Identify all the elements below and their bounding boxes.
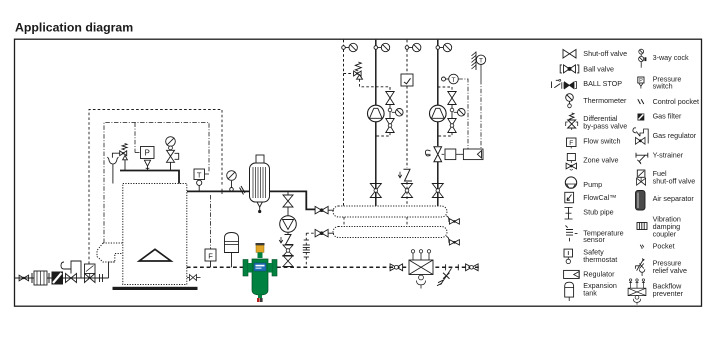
boiler top manifold — [120, 171, 179, 184]
control pocket on supply — [240, 186, 246, 195]
svg-text:relief valve: relief valve — [653, 266, 687, 275]
legend: vibration damping coupler — [637, 215, 681, 239]
inner dash-dot box — [104, 123, 209, 244]
svg-text:T: T — [479, 58, 483, 65]
riser 2 shutoff — [370, 184, 381, 198]
dirt separator drain — [258, 295, 262, 298]
burner blower — [97, 243, 123, 262]
svg-text:Stub pipe: Stub pipe — [583, 208, 613, 217]
return pipe dashed — [187, 266, 480, 268]
header right drains — [446, 216, 449, 222]
svg-text:thermostat: thermostat — [583, 255, 617, 264]
manifold isolation valve — [167, 150, 175, 162]
svg-text:Air separator: Air separator — [653, 194, 695, 203]
pump group circuit 2 — [438, 86, 452, 88]
svg-text:preventer: preventer — [653, 289, 684, 298]
legend: control pocket — [638, 97, 699, 106]
riser 4 top cock — [436, 46, 440, 50]
svg-text:Pocket: Pocket — [653, 241, 675, 250]
riser 2 top cock — [374, 46, 378, 50]
actuator — [445, 149, 456, 160]
legend: pump — [565, 177, 602, 189]
zone valve on riser 3 — [404, 169, 413, 181]
gauge on supply — [227, 171, 237, 181]
svg-text:BALL STOP: BALL STOP — [583, 79, 622, 88]
svg-text:Y-strainer: Y-strainer — [653, 151, 684, 160]
downstream ticks — [445, 264, 447, 270]
air separator — [256, 155, 264, 163]
legend: backflow preventer — [628, 279, 683, 305]
legend: gas filter — [638, 111, 682, 120]
svg-text:Application diagram: Application diagram — [15, 21, 133, 35]
expansion tank — [225, 233, 239, 253]
svg-text:Gas regulator: Gas regulator — [653, 131, 697, 140]
junction tick — [221, 189, 223, 194]
supply header — [333, 206, 447, 217]
svg-text:Pump: Pump — [583, 180, 602, 189]
supply pipe — [187, 191, 306, 205]
legend: FlowCal — [565, 192, 617, 203]
boiler drain cock — [187, 277, 189, 279]
legend: expansion tank — [565, 281, 617, 301]
riser 2 supply line — [375, 40, 377, 206]
legend: gas regulator — [633, 128, 697, 144]
pressure relief valve — [437, 268, 452, 286]
legend: y-strainer — [636, 151, 684, 165]
legend: differential by-pass valve — [566, 113, 628, 131]
outdoor sensor — [475, 52, 477, 71]
legend: air separator — [636, 191, 695, 211]
svg-text:Gas filter: Gas filter — [653, 111, 682, 120]
legend: regulator — [564, 270, 615, 279]
svg-text:switch: switch — [653, 81, 673, 90]
legend: shut-off valve — [563, 49, 627, 58]
flow temperature sensor — [442, 77, 446, 81]
svg-text:Regulator: Regulator — [583, 270, 615, 279]
svg-text:Control pocket: Control pocket — [653, 97, 699, 106]
svg-text:3-way cock: 3-way cock — [653, 53, 689, 62]
controller box — [463, 149, 483, 160]
header link risers — [344, 217, 407, 227]
recirc ball valve — [283, 245, 293, 256]
gas inlet valve — [19, 275, 29, 281]
svg-text:sensor: sensor — [583, 235, 605, 244]
svg-text:T: T — [452, 77, 456, 84]
fuel shut-off valve — [85, 264, 96, 274]
svg-text:coupler: coupler — [653, 229, 677, 238]
riser 4 shutoff — [432, 184, 443, 198]
svg-text:Thermometer: Thermometer — [583, 96, 627, 105]
FlowCal on riser 3 — [401, 74, 413, 86]
legend: 3-way cock — [639, 49, 689, 68]
pressure switch P — [141, 147, 155, 159]
control cabinet dashed box — [89, 110, 222, 265]
svg-text:Ball valve: Ball valve — [583, 64, 614, 73]
svg-text:P: P — [145, 149, 150, 158]
return header — [333, 227, 447, 238]
riser 3 return line — [406, 40, 408, 206]
pipe union — [100, 274, 103, 282]
flow switch F — [210, 195, 212, 249]
svg-text:Zone valve: Zone valve — [583, 156, 618, 165]
pump group circuit 1 — [368, 105, 385, 122]
svg-text:shut-off valve: shut-off valve — [653, 176, 696, 185]
svg-text:Flow switch: Flow switch — [583, 137, 620, 146]
svg-text:tank: tank — [583, 289, 597, 298]
legend: flow switch — [567, 137, 621, 149]
boiler base plinth — [113, 287, 198, 290]
svg-text:Shut-off valve: Shut-off valve — [583, 49, 627, 58]
safety thermostat T — [194, 169, 205, 180]
supply header inlet valve — [315, 206, 328, 214]
riser 1 return line — [343, 40, 345, 206]
legend: pressure switch — [638, 75, 682, 91]
recirc branch valve — [287, 191, 289, 195]
dirt separator cap — [256, 243, 265, 245]
gas regulator — [66, 274, 77, 283]
return shutoff valve — [390, 264, 403, 271]
svg-text:FlowCal™: FlowCal™ — [583, 193, 616, 202]
vibration damping coupler — [32, 273, 49, 283]
riser 3 shutoff — [402, 184, 413, 198]
dirt separator flanges — [243, 260, 248, 277]
svg-text:T: T — [197, 170, 202, 179]
dirt separator label — [254, 263, 266, 271]
legend: thermometer — [566, 94, 627, 108]
legend: pressure relief valve — [635, 258, 687, 276]
dirt separator body — [252, 259, 268, 295]
return end valve — [466, 264, 479, 271]
legend: ball valve — [560, 64, 614, 73]
check valve — [287, 232, 289, 234]
legend: stub pipe — [565, 207, 614, 219]
gas filter — [52, 272, 64, 285]
riser 1 top cock — [342, 46, 346, 50]
svg-text:F: F — [208, 252, 213, 261]
legend: pocket — [640, 241, 674, 250]
legend: safety thermostat — [564, 247, 617, 263]
riser 3 top cock — [405, 46, 409, 50]
backflow preventer — [409, 260, 433, 275]
svg-text:by-pass valve: by-pass valve — [583, 122, 627, 131]
boiler — [123, 184, 187, 285]
legend: zone valve — [566, 154, 618, 171]
svg-text:F: F — [569, 140, 573, 147]
riser 4 supply line — [437, 40, 439, 206]
tundish funnel — [107, 157, 118, 184]
3-way mixing valve — [434, 147, 442, 162]
legend: temperature sensor — [566, 226, 624, 245]
differential by-pass valve — [344, 73, 354, 75]
supply elbow — [306, 206, 315, 210]
legend: fuel shut-off valve — [637, 169, 696, 185]
safety relief valve — [122, 144, 127, 150]
legend: BALL STOP — [552, 79, 623, 89]
return header inlet valve — [315, 229, 328, 237]
gas pipe — [15, 277, 109, 279]
return riser coupler — [305, 233, 307, 267]
recirc pump — [287, 207, 289, 216]
burner flame triangle — [139, 249, 171, 261]
gauge on boiler manifold — [166, 137, 176, 147]
